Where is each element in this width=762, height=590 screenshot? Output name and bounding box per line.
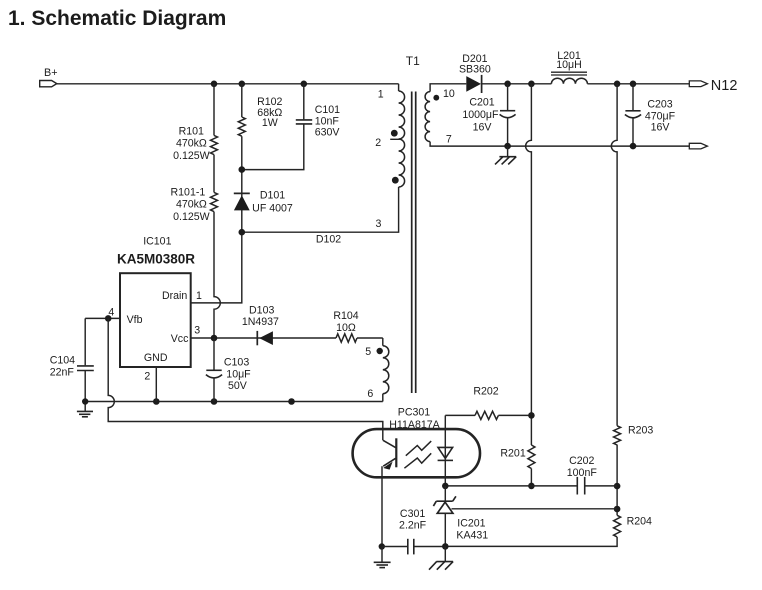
svg-text:470μF: 470μF <box>645 110 676 122</box>
junction R201 bottom <box>528 483 535 490</box>
capacitor C104 <box>50 318 94 401</box>
svg-text:1000μF: 1000μF <box>462 109 499 121</box>
svg-text:1: 1 <box>378 89 384 101</box>
svg-text:KA5M0380R: KA5M0380R <box>117 252 195 267</box>
IC IC201 KA431 shunt regulator <box>433 486 488 547</box>
svg-text:0.125W: 0.125W <box>173 211 210 223</box>
diode D103 <box>242 304 279 345</box>
svg-text:R201: R201 <box>500 447 525 459</box>
wire R202 line <box>445 414 475 416</box>
svg-text:22nF: 22nF <box>50 366 75 378</box>
wire R101 chain <box>213 84 215 136</box>
junction gnd rail spare <box>288 398 295 405</box>
svg-text:R203: R203 <box>628 425 653 437</box>
svg-text:630V: 630V <box>315 127 341 139</box>
junction rail at R202 branch <box>528 81 535 88</box>
svg-text:IC201: IC201 <box>457 517 485 529</box>
wire primary winding drop and D102 return <box>398 84 400 91</box>
svg-text:10Ω: 10Ω <box>336 322 356 334</box>
diode D201 <box>459 53 491 93</box>
transformer T1 aux winding 5-6 <box>365 338 389 402</box>
svg-text:IC101: IC101 <box>143 236 171 248</box>
svg-text:C104: C104 <box>50 355 75 367</box>
wire opto emitter drop <box>381 466 383 546</box>
svg-text:2: 2 <box>375 137 381 149</box>
junction R102/C101 node <box>239 166 246 173</box>
junction bottom rail at C203 <box>630 143 637 150</box>
inductor L201 <box>551 50 587 84</box>
junction top rail at R102 <box>239 81 246 88</box>
ground under C104 <box>77 402 93 417</box>
wire IC gnd pin 2 <box>155 367 157 402</box>
capacitor C203 <box>625 84 676 146</box>
svg-text:UF 4007: UF 4007 <box>252 202 293 214</box>
junction D101/D102 node <box>239 229 246 236</box>
wire between R101 and R101-1 <box>213 155 215 193</box>
svg-text:3: 3 <box>194 324 200 336</box>
svg-text:16V: 16V <box>473 121 493 133</box>
svg-text:SB360: SB360 <box>459 63 491 75</box>
junction R202/R201 <box>528 412 535 419</box>
svg-text:R204: R204 <box>627 516 652 528</box>
wire R102 D101 chain <box>241 84 243 117</box>
capacitor C201 <box>462 84 515 146</box>
primary polarity dot lower <box>392 177 399 184</box>
svg-text:2.2nF: 2.2nF <box>399 520 427 532</box>
junction rail at C201 <box>504 81 511 88</box>
node N12 <box>689 78 737 94</box>
svg-text:10μF: 10μF <box>226 368 251 380</box>
svg-text:R104: R104 <box>333 310 358 322</box>
svg-text:10: 10 <box>443 88 455 100</box>
junction emitter/C301 <box>379 543 385 549</box>
resistor R201 <box>528 445 535 468</box>
opto LED <box>438 415 453 486</box>
svg-text:D103: D103 <box>249 304 274 316</box>
svg-text:PC301: PC301 <box>398 407 430 419</box>
svg-text:50V: 50V <box>228 380 248 392</box>
svg-text:C201: C201 <box>469 97 494 109</box>
resistor R101 <box>211 135 218 154</box>
svg-text:1: 1 <box>196 290 202 302</box>
svg-text:C203: C203 <box>647 98 672 110</box>
svg-text:R101: R101 <box>179 125 204 137</box>
svg-text:C301: C301 <box>400 508 425 520</box>
capacitor C202 <box>567 455 617 495</box>
junction KA431 anode node <box>442 543 449 550</box>
junction divider top <box>614 483 621 490</box>
svg-text:C103: C103 <box>224 357 249 369</box>
transformer core <box>411 92 413 394</box>
chassis ground at KA431 <box>429 546 453 569</box>
svg-text:GND: GND <box>144 352 168 364</box>
ground under opto emitter <box>374 547 391 568</box>
capacitor C301 <box>382 508 445 554</box>
junction top rail at C101 <box>301 81 308 88</box>
resistor R102 <box>238 117 245 136</box>
diode D101 <box>234 189 293 214</box>
node B+ <box>40 67 58 87</box>
svg-text:1. Schematic Diagram: 1. Schematic Diagram <box>8 7 226 30</box>
svg-text:B+: B+ <box>44 67 58 79</box>
junction bottom rail at C201 <box>504 143 511 150</box>
wire R102 to drain corner <box>191 136 242 303</box>
chassis ground at C201 <box>495 146 516 164</box>
junction top rail at R101 <box>211 81 218 88</box>
svg-text:5: 5 <box>365 346 371 358</box>
svg-text:KA431: KA431 <box>456 530 488 542</box>
capacitor C101 <box>245 84 340 170</box>
svg-text:C101: C101 <box>315 104 340 116</box>
junction rail at R203 branch <box>614 81 621 88</box>
resistor R204 <box>614 515 621 537</box>
IC U1 KA5M0380R box <box>120 273 191 367</box>
svg-text:D101: D101 <box>260 189 285 201</box>
svg-text:R102: R102 <box>257 96 282 108</box>
resistor R101-1 <box>211 192 218 211</box>
wire Vfb feedback drop with hop over gnd rail <box>108 318 383 440</box>
junction gnd rail C104 <box>82 398 88 404</box>
svg-text:16V: 16V <box>651 122 671 134</box>
svg-text:0.125W: 0.125W <box>173 150 210 162</box>
svg-text:N12: N12 <box>711 78 738 94</box>
wire Vcc line pin 3 to aux winding <box>191 337 336 339</box>
svg-text:100nF: 100nF <box>567 467 598 479</box>
junction Vcc node <box>211 335 218 342</box>
svg-text:T1: T1 <box>406 54 420 68</box>
svg-text:10μH: 10μH <box>556 59 582 71</box>
svg-text:470kΩ: 470kΩ <box>176 199 207 211</box>
junction gnd rail IC pin2 <box>153 398 160 405</box>
resistor R202 <box>475 411 498 419</box>
svg-text:R202: R202 <box>473 386 498 398</box>
wire top rail B+ to transformer <box>57 83 399 85</box>
svg-text:Drain: Drain <box>162 290 187 302</box>
wire C202 line <box>445 485 577 487</box>
svg-text:6: 6 <box>367 388 373 400</box>
opto light arrows <box>406 441 431 456</box>
wire feedback branch x=531 with hop over bottom rail <box>526 84 532 445</box>
svg-text:1W: 1W <box>262 117 278 129</box>
svg-text:10nF: 10nF <box>315 115 340 127</box>
transformer T1 secondary winding 10-7 <box>425 92 430 142</box>
pin 2 tap <box>390 138 400 140</box>
wire Vfb pin 4 <box>85 317 120 319</box>
optocoupler PC301 body <box>353 429 480 477</box>
svg-text:470kΩ: 470kΩ <box>176 138 207 150</box>
resistor R104 <box>333 310 358 342</box>
svg-text:3: 3 <box>376 218 382 230</box>
junction Vfb node <box>105 315 112 322</box>
junction divider ref <box>614 506 621 513</box>
wire sense branch x=617 with hop over bottom rail <box>611 84 617 426</box>
primary polarity dot upper <box>391 130 398 137</box>
svg-text:H11A817A: H11A817A <box>389 419 440 431</box>
wire gnd rail <box>85 401 383 403</box>
svg-text:Vfb: Vfb <box>127 314 143 326</box>
opto phototransistor <box>383 438 396 469</box>
transformer T1 primary winding 1-2-3 <box>399 91 405 187</box>
svg-text:R101-1: R101-1 <box>171 186 206 198</box>
wire R101-1 to Vcc node with hop over drain line <box>214 212 220 338</box>
svg-text:Vcc: Vcc <box>171 333 189 345</box>
junction gnd rail C103 <box>211 398 218 405</box>
secondary rectified rail <box>430 84 466 92</box>
node output return <box>689 143 707 149</box>
svg-text:D102: D102 <box>316 233 341 245</box>
resistor R203 <box>614 426 621 445</box>
junction LED cathode node <box>442 483 449 490</box>
wire KA431 ref line <box>452 508 618 510</box>
capacitor C103 <box>206 338 251 402</box>
secondary polarity dot <box>433 95 439 101</box>
wire top output rail <box>482 83 552 85</box>
svg-text:2: 2 <box>144 371 150 383</box>
svg-text:1N4937: 1N4937 <box>242 316 279 328</box>
svg-text:7: 7 <box>446 134 452 146</box>
svg-text:C202: C202 <box>569 455 594 467</box>
junction rail at C203 <box>630 81 637 88</box>
